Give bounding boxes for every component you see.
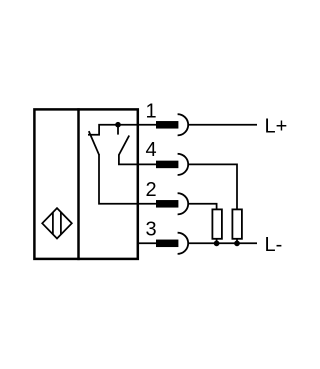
svg-text:4: 4 (145, 139, 156, 161)
wire: NO contact to pin 4 (119, 155, 139, 165)
svg-text:3: 3 (145, 218, 156, 240)
wire: L+ rail inside body (88, 125, 139, 135)
resistor R2 (load on pin 4) (232, 209, 242, 243)
svg-text:1: 1 (145, 100, 156, 122)
wire: pin 3 to L- (188, 242, 257, 244)
wire: pin 2 to resistor R1 (188, 204, 216, 210)
pin 3 contact (139, 233, 188, 254)
sensor body outline (34, 109, 137, 259)
wire: NC contact to pin 2 (99, 154, 139, 204)
pin 4 contact (139, 154, 188, 175)
switch contact NO (to pin 4) (117, 124, 119, 135)
svg-text:2: 2 (145, 179, 156, 201)
svg-text:L-: L- (265, 234, 283, 256)
wire: pin 4 to resistor R2 (188, 164, 237, 209)
node: R1 junction on L- rail (214, 241, 220, 247)
wire: pin 1 to L+ (188, 124, 257, 126)
proximity sensor symbol (diamond) (42, 208, 72, 238)
switch contact NC (to pin 2) (89, 131, 99, 155)
resistor R1 (load on pin 2) (212, 209, 222, 243)
svg-text:L+: L+ (265, 116, 288, 138)
node: R2 junction on L- rail (234, 241, 240, 247)
pin 1 contact (139, 114, 188, 135)
sensor body divider (77, 108, 80, 260)
switch blade NO (119, 136, 129, 155)
node: junction dot on L+ rail (115, 122, 121, 128)
pin 2 contact (139, 193, 188, 214)
